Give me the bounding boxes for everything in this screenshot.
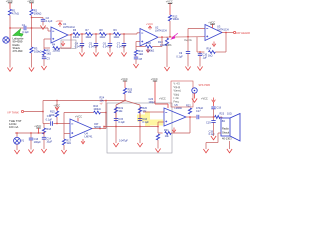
- svg-text:LM386: LM386: [175, 107, 183, 110]
- svg-text:100kΩ: 100kΩ: [34, 49, 42, 53]
- svg-text:0.1µF: 0.1µF: [176, 55, 183, 58]
- svg-text:C19: C19: [206, 122, 211, 125]
- svg-text:V: 4.5: V: 4.5: [174, 83, 181, 86]
- svg-text:10µF: 10µF: [46, 140, 52, 143]
- svg-text:1kΩ: 1kΩ: [46, 51, 51, 55]
- svg-text:R10: R10: [146, 41, 151, 45]
- svg-text:10Ω: 10Ω: [227, 113, 232, 116]
- svg-text:I: 2m: I: 2m: [174, 97, 179, 100]
- svg-text:10kΩ: 10kΩ: [73, 36, 79, 39]
- svg-text:0.047µF: 0.047µF: [117, 46, 127, 49]
- svg-text:R23: R23: [220, 113, 225, 116]
- svg-text:0.047µF: 0.047µF: [119, 140, 128, 143]
- svg-text:+VCC: +VCC: [56, 19, 63, 23]
- svg-text:0.1µF: 0.1µF: [209, 133, 216, 136]
- svg-text:Freq.: Freq.: [174, 101, 180, 104]
- svg-text:LM741: LM741: [85, 134, 93, 138]
- svg-text:+VCC: +VCC: [208, 20, 215, 24]
- svg-text:0.1µF: 0.1µF: [22, 30, 29, 34]
- svg-text:V(dc): V(dc): [174, 93, 180, 96]
- svg-text:R21: R21: [164, 129, 169, 132]
- svg-text:100kΩ: 100kΩ: [34, 11, 42, 15]
- svg-text:0.047µF: 0.047µF: [89, 46, 99, 49]
- svg-text:10kΩ: 10kΩ: [85, 36, 91, 39]
- svg-text:100k: 100k: [49, 114, 55, 117]
- svg-text:10kΩ: 10kΩ: [160, 44, 166, 47]
- svg-text:C8: C8: [139, 57, 143, 61]
- svg-text:R22: R22: [186, 104, 191, 107]
- svg-text:100kΩ: 100kΩ: [93, 108, 100, 111]
- svg-text:C18: C18: [216, 106, 221, 109]
- svg-text:LM741CH: LM741CH: [155, 29, 167, 33]
- svg-text:+VCC: +VCC: [53, 105, 60, 108]
- svg-text:C17: C17: [196, 110, 201, 113]
- svg-text:R14: R14: [207, 48, 212, 51]
- svg-text:C1: C1: [22, 23, 26, 27]
- svg-text:SPK.PWR: SPK.PWR: [199, 84, 211, 87]
- svg-text:I/P TANK: I/P TANK: [8, 110, 19, 114]
- svg-text:LM741CH: LM741CH: [217, 27, 229, 31]
- svg-text:8Ω: 8Ω: [222, 120, 225, 123]
- svg-text:R18: R18: [46, 128, 51, 131]
- svg-text:Radio: Radio: [222, 126, 229, 130]
- svg-text:470µF: 470µF: [196, 107, 204, 110]
- svg-text:V(p-p): V(p-p): [174, 86, 181, 89]
- svg-text:+VCC: +VCC: [159, 97, 166, 100]
- svg-text:Shack: Shack: [222, 131, 230, 135]
- svg-text:10kΩ: 10kΩ: [113, 36, 119, 39]
- svg-text:+VCC: +VCC: [146, 22, 153, 26]
- svg-text:0.047µF: 0.047µF: [75, 46, 85, 49]
- svg-text:+VCC: +VCC: [201, 97, 208, 100]
- svg-text:1kΩ: 1kΩ: [66, 142, 71, 145]
- svg-text:100kΩ: 100kΩ: [52, 49, 60, 53]
- svg-text:0.1µF: 0.1µF: [142, 121, 149, 124]
- svg-text:C3: C3: [46, 56, 50, 60]
- svg-text:10kΩ: 10kΩ: [173, 17, 179, 21]
- svg-text:100 mA: 100 mA: [9, 125, 18, 129]
- svg-text:+V: +V: [100, 103, 103, 106]
- svg-text:100µF: 100µF: [34, 141, 42, 144]
- svg-text:0.047µF: 0.047µF: [103, 46, 113, 49]
- svg-text:1kΩ: 1kΩ: [138, 52, 143, 56]
- svg-text:1µF: 1µF: [203, 57, 208, 60]
- svg-text:40-1303: 40-1303: [222, 136, 232, 140]
- svg-text:V(rms): V(rms): [174, 90, 181, 93]
- svg-text:50%: 50%: [167, 44, 173, 47]
- svg-text:10kΩ: 10kΩ: [99, 36, 105, 39]
- svg-text:100kΩ: 100kΩ: [147, 48, 155, 52]
- svg-text:+VCC: +VCC: [75, 115, 82, 119]
- svg-text:270-090: 270-090: [13, 49, 23, 53]
- svg-text:SPKR: SPKR: [94, 126, 101, 129]
- svg-text:1kΩ: 1kΩ: [208, 55, 213, 58]
- svg-text:O/P HEADPH: O/P HEADPH: [236, 31, 250, 35]
- svg-text:4.7kΩ: 4.7kΩ: [12, 11, 19, 15]
- svg-text:0.1µF: 0.1µF: [46, 19, 53, 23]
- svg-text:0.1µF: 0.1µF: [118, 121, 125, 124]
- svg-text:0.1µF: 0.1µF: [46, 118, 53, 121]
